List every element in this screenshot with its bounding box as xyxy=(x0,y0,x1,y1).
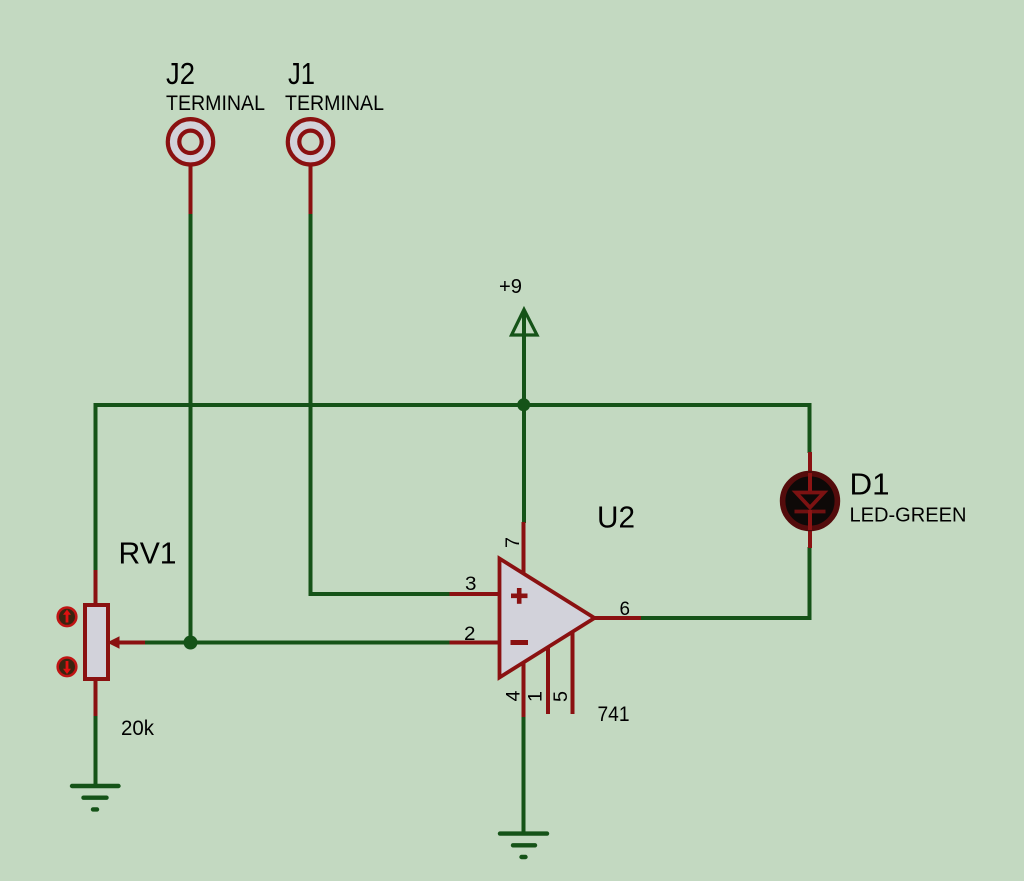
wire: RV1 bottom to left ground xyxy=(94,715,98,786)
RV1 increment button xyxy=(58,608,77,627)
wire: U2 pin 4 down to center ground xyxy=(522,716,526,833)
ground (left, below RV1) xyxy=(72,786,119,809)
junction node: J2 / wiper / pin 2 xyxy=(184,636,198,650)
label D1 xyxy=(850,467,890,502)
LED D1 xyxy=(783,452,838,548)
svg-text:J1: J1 xyxy=(288,56,315,91)
svg-text:TERMINAL: TERMINAL xyxy=(166,92,265,115)
svg-text:6: 6 xyxy=(620,599,631,620)
wire: J1 terminal down and right to U2 pin 3 xyxy=(311,213,450,594)
label U2 xyxy=(597,500,635,535)
label J2 xyxy=(166,56,195,91)
svg-text:20k: 20k xyxy=(121,717,154,740)
U2 pin 6 xyxy=(592,599,641,620)
wire: J2 terminal down to junction xyxy=(189,213,193,643)
ground (center, below U2 pin 4) xyxy=(500,834,547,857)
label 741 xyxy=(598,703,630,726)
U2 pin 3 xyxy=(450,574,501,595)
label LED-GREEN xyxy=(850,505,967,527)
svg-text:2: 2 xyxy=(464,624,476,645)
wire: RV1 wiper to junction to U2 pin 2 xyxy=(143,641,450,645)
label 20k xyxy=(121,717,154,740)
potentiometer RV1 xyxy=(85,570,145,716)
svg-text:4: 4 xyxy=(503,690,525,701)
svg-text:1: 1 xyxy=(525,691,547,702)
U2 pin 1 xyxy=(525,645,549,714)
RV1 decrement button xyxy=(58,658,77,677)
svg-text:U2: U2 xyxy=(597,500,635,535)
svg-text:TERMINAL: TERMINAL xyxy=(285,92,384,115)
junction node: rail / +9 / pin 7 xyxy=(517,398,530,411)
power symbol +9 xyxy=(499,275,537,335)
U2 pin 7 xyxy=(502,522,524,576)
svg-text:7: 7 xyxy=(502,537,524,548)
svg-text:3: 3 xyxy=(465,574,477,595)
svg-text:J2: J2 xyxy=(166,56,195,91)
op-amp U2 body xyxy=(500,559,595,678)
svg-text:+9: +9 xyxy=(499,275,522,298)
U2 pin 5 xyxy=(550,630,573,714)
svg-text:5: 5 xyxy=(550,691,572,702)
svg-text:D1: D1 xyxy=(850,467,890,502)
label J1 xyxy=(288,56,315,91)
wire: +9 power down through junction to U2 pin 7 xyxy=(522,311,526,523)
label RV1 xyxy=(119,536,177,571)
wire: top power rail from left rail to LED anode xyxy=(96,405,810,453)
svg-text:741: 741 xyxy=(598,703,630,726)
wire: U2 pin 6 output right and up to LED cathode xyxy=(640,547,810,618)
U2 pin 2 xyxy=(450,624,501,645)
label TERMINAL (J2) xyxy=(166,92,265,115)
svg-text:LED-GREEN: LED-GREEN xyxy=(850,505,967,527)
svg-text:RV1: RV1 xyxy=(119,536,177,571)
terminal J1 xyxy=(288,119,333,214)
terminal J2 xyxy=(168,119,213,214)
label TERMINAL (J1) xyxy=(285,92,384,115)
wire: left rail drop to RV1 top xyxy=(94,403,98,571)
U2 pin 4 xyxy=(503,660,525,717)
